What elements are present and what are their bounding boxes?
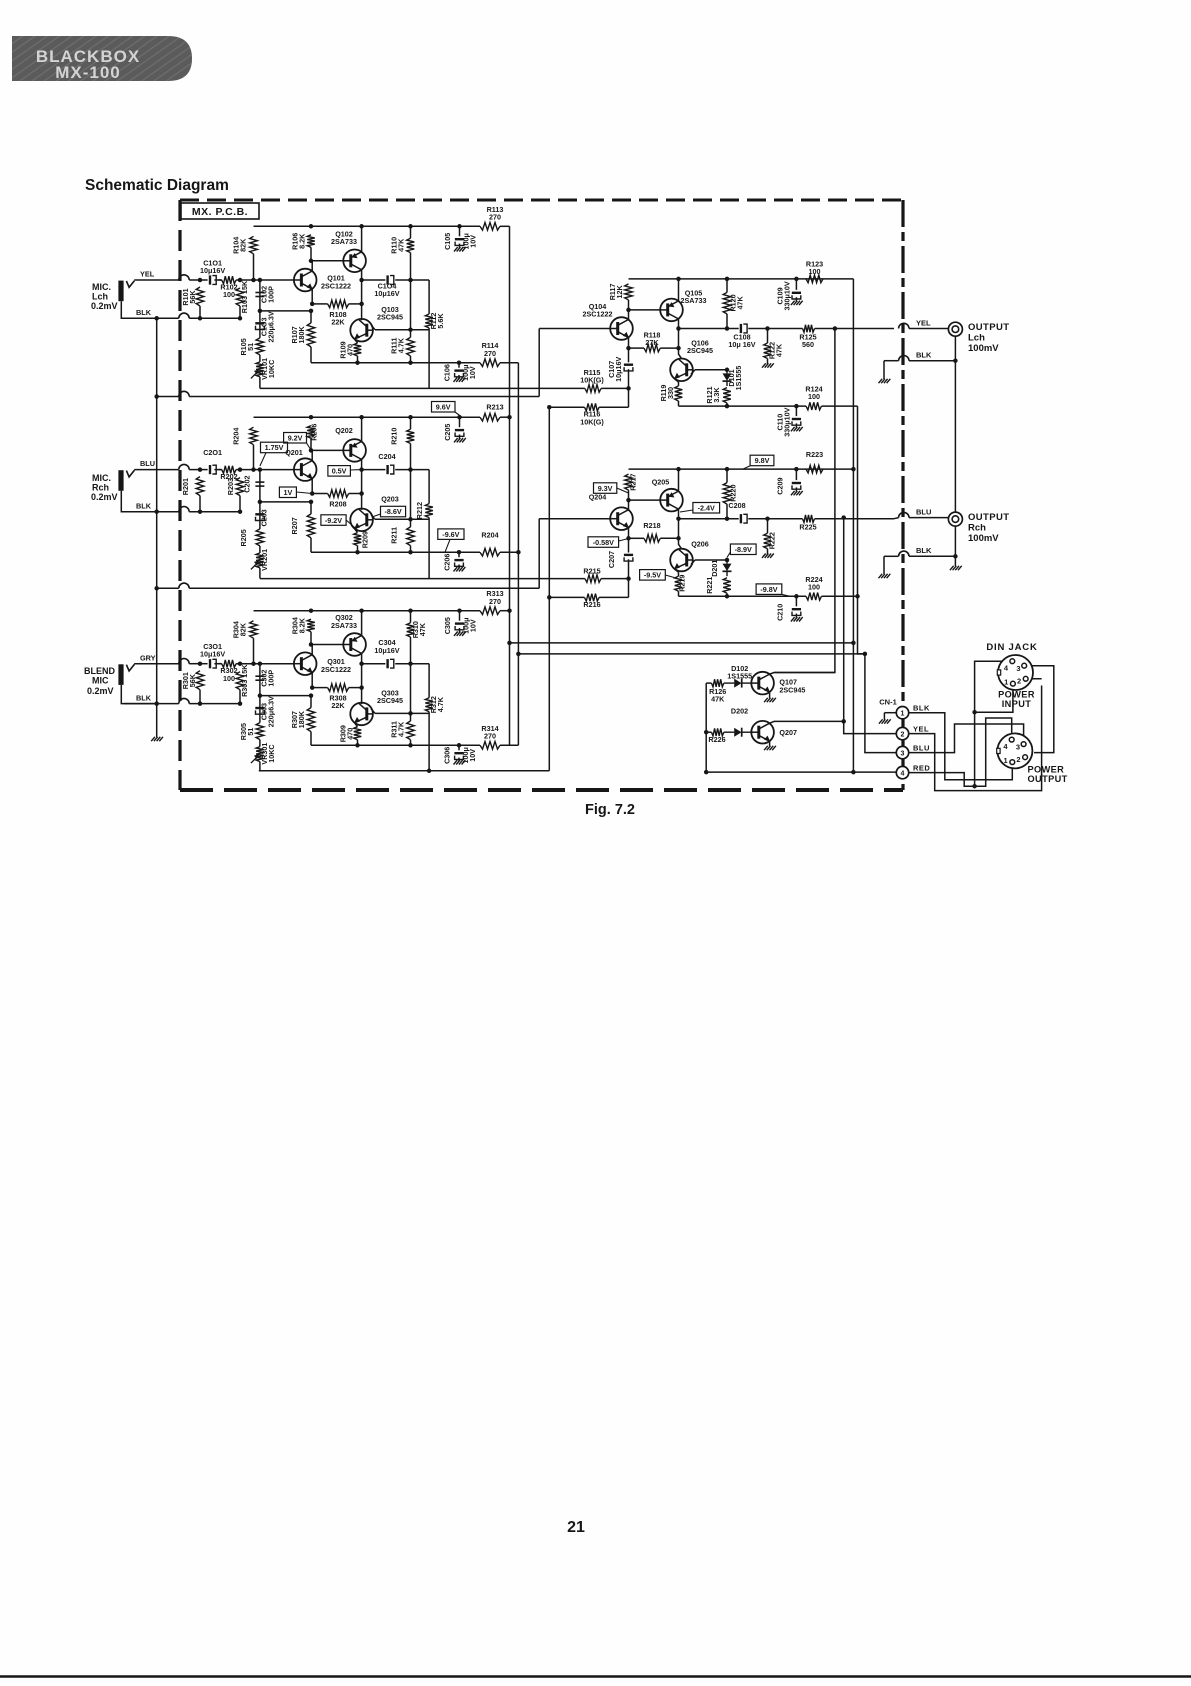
svg-text:100: 100 <box>808 582 820 591</box>
label OUTPUT Lch 100mV <box>968 322 1009 354</box>
wire bottom rail block 2 <box>311 551 480 553</box>
label BLK input blend <box>136 694 152 703</box>
svg-text:2: 2 <box>901 731 905 738</box>
label Q206 <box>691 540 709 549</box>
wire mix feed left Lch <box>260 388 585 407</box>
svg-text:10μ16V: 10μ16V <box>614 357 623 382</box>
svg-text:2: 2 <box>1016 755 1020 764</box>
label R115 <box>580 368 604 385</box>
svg-text:R103 15K: R103 15K <box>240 280 249 313</box>
label R117 <box>608 284 624 301</box>
label C201 <box>203 448 222 457</box>
label R123 <box>806 260 823 277</box>
svg-text:82K: 82K <box>238 622 247 636</box>
resistor R106 8.2K <box>307 235 315 261</box>
wire Q104 collector <box>628 310 630 320</box>
svg-text:BLK: BLK <box>136 308 152 317</box>
resistor R310 47K <box>407 611 415 714</box>
ground CN-1 <box>879 719 891 723</box>
junction dots mixer Lch <box>547 277 799 410</box>
ground BLK Lch left <box>879 379 891 383</box>
svg-text:BLU: BLU <box>913 743 930 752</box>
wire blend mix bus <box>259 407 550 771</box>
mic jack input block 3 <box>118 664 157 703</box>
PCB dashed border right <box>901 200 904 790</box>
svg-text:0.5V: 0.5V <box>332 467 347 476</box>
svg-text:R208: R208 <box>329 500 346 509</box>
wire BLK return block 3 <box>124 698 240 703</box>
svg-text:100mV: 100mV <box>968 343 999 354</box>
net -9.6V bus vertical <box>517 363 519 746</box>
svg-text:C2O1: C2O1 <box>203 448 222 457</box>
PCB dashed border bottom <box>180 788 903 792</box>
label Q106 <box>687 338 713 355</box>
svg-text:R204: R204 <box>231 428 240 445</box>
ground C306 <box>454 760 466 764</box>
label MIC. Lch 0.2mV <box>91 282 118 311</box>
svg-text:CN-1: CN-1 <box>879 698 897 707</box>
output jack Rch <box>948 512 962 526</box>
svg-text:100P: 100P <box>267 670 276 687</box>
svg-text:R204: R204 <box>481 531 498 540</box>
wire CN-1 YEL to output DIN pin2 <box>909 686 1042 791</box>
junction dots block 2 <box>154 415 461 555</box>
transistor Q107 2SC945 <box>751 672 774 695</box>
resistor R202 <box>222 466 236 474</box>
resistor R221 <box>723 578 731 597</box>
DIN jack POWER OUTPUT <box>997 733 1033 768</box>
svg-text:Q205: Q205 <box>652 478 670 487</box>
label Q204 <box>589 492 607 501</box>
label R122 <box>767 342 783 359</box>
label BLEND MIC 0.2mV <box>84 666 115 696</box>
capacitor C304 output coupling <box>362 659 430 668</box>
svg-text:BLK: BLK <box>136 694 152 703</box>
svg-text:C204: C204 <box>378 452 395 461</box>
wire BLK Rch shield <box>884 551 955 574</box>
svg-text:10V: 10V <box>468 619 477 632</box>
capacitor C207 emitter <box>624 538 633 578</box>
wire Q107 collector to mute line <box>770 673 835 675</box>
wire mixer bottom rail Lch <box>679 405 858 407</box>
wire Q102 collector down <box>361 270 363 321</box>
voltage label 9.6V <box>432 402 463 418</box>
label R106 <box>290 233 306 250</box>
ground C305 <box>454 632 466 636</box>
resistor R107 180K <box>307 311 315 363</box>
label C102 <box>260 286 276 303</box>
svg-text:0.2mV: 0.2mV <box>91 301 118 311</box>
svg-text:R210: R210 <box>390 428 399 445</box>
wire Q202 emitter to rail <box>361 417 363 441</box>
label BLU <box>916 508 931 517</box>
label Q104 <box>583 302 613 319</box>
label R104 82K <box>231 237 247 254</box>
svg-text:-9.8V: -9.8V <box>760 585 777 594</box>
wire Q205 collector down <box>679 509 682 549</box>
label C209 <box>775 478 784 495</box>
wire CN-1 BLK to output DIN pin1 <box>909 713 1013 780</box>
label R109 <box>338 341 354 358</box>
label R214 <box>481 531 498 540</box>
svg-text:Lch: Lch <box>968 333 985 344</box>
svg-text:9.2V: 9.2V <box>288 433 303 442</box>
resistor R313 supply <box>480 607 510 615</box>
wire Q206 emitter <box>675 569 679 572</box>
wire Q302 collector down <box>361 654 363 705</box>
label Q207 <box>779 728 797 737</box>
label R311 <box>389 721 405 738</box>
label BLK Lch <box>916 351 932 360</box>
svg-text:51: 51 <box>246 728 255 736</box>
svg-text:51: 51 <box>246 343 255 351</box>
wire Q101 emitter <box>311 289 313 304</box>
resistor R114 supply <box>460 359 518 367</box>
svg-text:MIC.: MIC. <box>92 282 111 292</box>
wire Q105 base line <box>629 309 661 311</box>
voltage label -9.2V <box>321 515 358 530</box>
svg-text:Rch: Rch <box>968 523 986 534</box>
svg-text:330μ10V: 330μ10V <box>782 281 791 310</box>
wire mixer top rail Lch <box>629 278 854 280</box>
svg-text:10KC: 10KC <box>267 360 276 378</box>
label R220 <box>728 485 737 502</box>
resistor R219 <box>675 572 683 596</box>
svg-text:10μ16V: 10μ16V <box>374 289 399 298</box>
svg-text:560: 560 <box>802 340 814 349</box>
svg-text:BLK: BLK <box>916 351 932 360</box>
label R113 <box>487 205 504 222</box>
svg-text:21: 21 <box>567 1519 585 1536</box>
wire Q107 emitter to ground <box>769 692 771 698</box>
capacitor C305 rail decoupling <box>455 611 464 633</box>
svg-text:10μ16V: 10μ16V <box>374 646 399 655</box>
bottom page rule <box>0 1675 1191 1677</box>
label BLK CN-1 <box>913 704 930 713</box>
label D202 <box>731 707 748 716</box>
svg-text:220μ6.3V: 220μ6.3V <box>267 311 276 342</box>
wire top rail block 3 <box>254 610 481 612</box>
svg-text:100: 100 <box>223 290 235 299</box>
resistor R220 <box>723 469 731 519</box>
PCB dashed border left <box>178 200 181 790</box>
label C106 <box>443 364 477 381</box>
potentiometer VR201 <box>251 546 264 579</box>
svg-text:3: 3 <box>901 750 905 757</box>
voltage label -8.9V <box>727 544 756 558</box>
wire border hop input <box>134 659 189 664</box>
transistor Q203 2SC945 <box>350 509 373 532</box>
svg-text:POWER: POWER <box>1028 765 1065 775</box>
capacitor C103 <box>255 311 264 338</box>
wire Lch base feed vertical <box>538 329 540 397</box>
wire Q106 emitter <box>675 379 679 382</box>
capacitor C109 <box>792 279 801 302</box>
wire input DIN pin3 loop <box>1024 666 1054 753</box>
svg-text:0.2mV: 0.2mV <box>91 492 118 502</box>
label Q205 <box>652 478 670 487</box>
svg-text:Rch: Rch <box>92 483 109 493</box>
svg-text:2SC1222: 2SC1222 <box>583 310 613 319</box>
svg-text:8.2K: 8.2K <box>297 233 306 249</box>
wire Rch output line <box>679 518 895 520</box>
label BLK Rch <box>916 546 932 555</box>
wire input ground bus vertical <box>156 318 158 737</box>
label BLU input <box>140 459 155 468</box>
svg-text:DIN JACK: DIN JACK <box>986 642 1037 653</box>
capacitor C303 <box>255 696 264 723</box>
svg-text:1V: 1V <box>284 488 293 497</box>
svg-text:R207: R207 <box>290 517 299 534</box>
svg-text:Fig. 7.2: Fig. 7.2 <box>585 802 635 818</box>
wire RED supply row <box>706 771 896 773</box>
resistor R207 180K <box>307 502 315 552</box>
svg-text:OUTPUT: OUTPUT <box>1028 774 1068 784</box>
wire Q105 collector down <box>679 319 682 359</box>
ground BLK Rch left <box>879 574 891 578</box>
svg-text:R303 15K: R303 15K <box>240 664 249 697</box>
label R120 <box>728 294 744 311</box>
wire Q207 emitter to ground <box>769 741 771 746</box>
label C302 <box>260 670 276 687</box>
label R310 <box>411 621 427 638</box>
resistor R301 <box>196 671 204 704</box>
svg-text:C203: C203 <box>260 509 269 526</box>
label R119 <box>659 385 675 402</box>
label R101 <box>181 288 197 305</box>
wire Q201 collector to Q202 base <box>311 450 343 460</box>
svg-text:470: 470 <box>345 728 354 740</box>
label C109 <box>775 281 791 310</box>
svg-text:4.7K: 4.7K <box>436 696 445 712</box>
svg-text:R206: R206 <box>310 424 319 441</box>
wire mixer top rail Rch <box>629 468 854 470</box>
transistor Q101 2SC1222 <box>294 269 317 292</box>
label R301 <box>181 672 197 689</box>
ground input bus <box>151 737 163 741</box>
label D201 <box>710 560 719 577</box>
voltage label 0.5V <box>328 466 362 477</box>
label Q201 <box>285 448 303 457</box>
svg-text:22K: 22K <box>331 701 345 710</box>
resistor R218 27K <box>629 535 679 543</box>
wire bottom rail block 1 <box>311 362 480 364</box>
svg-text:2SC945: 2SC945 <box>377 313 403 322</box>
wire input DIN pin4 drop <box>972 661 1012 788</box>
wire Q205 base line <box>629 499 661 501</box>
label C205 <box>443 424 452 441</box>
svg-text:27K: 27K <box>645 338 659 347</box>
label C208 <box>728 501 745 510</box>
wire Q205 emitter to rail <box>678 469 680 491</box>
capacitor C302 <box>255 664 264 696</box>
label R210 <box>390 428 399 445</box>
svg-text:-9.5V: -9.5V <box>644 571 661 580</box>
capacitor C301 <box>200 659 222 668</box>
svg-text:BLEND: BLEND <box>84 666 115 676</box>
wire Q204 collector <box>628 500 630 510</box>
voltage label -9.6V <box>438 529 464 552</box>
label CN-1 <box>879 698 897 707</box>
resistor R217 <box>625 474 633 500</box>
label R125 <box>799 333 816 350</box>
label R206 <box>310 424 319 441</box>
wire input DIN pin1 drop <box>972 684 1013 715</box>
resistor R126 47K <box>706 679 724 687</box>
wire CN-1 RED to output DIN pin4 <box>909 718 1012 786</box>
resistor R109 470 <box>354 343 362 363</box>
resistor R306 8.2K <box>307 619 315 644</box>
label Q102 <box>331 230 357 247</box>
capacitor C106 rail decoupling <box>454 363 463 379</box>
svg-text:10K(G): 10K(G) <box>580 417 604 426</box>
capacitor C306 rail decoupling <box>454 745 463 761</box>
label BLU CN-1 <box>913 743 930 752</box>
label R219 <box>678 575 687 592</box>
label R304 82K <box>231 621 247 638</box>
label R306 <box>290 617 306 634</box>
diode D102 1S1555 <box>724 679 751 688</box>
label C107 <box>607 357 623 382</box>
wire CN-1 pin1 ground stub <box>884 713 896 720</box>
label R124 <box>805 385 822 402</box>
resistor R105 <box>256 338 264 355</box>
ground C206 <box>454 567 466 571</box>
ground Q107 <box>764 698 776 702</box>
transistor Q105 (PNP) <box>660 299 683 322</box>
svg-text:2SA733: 2SA733 <box>681 296 707 305</box>
svg-text:R220: R220 <box>728 485 737 502</box>
svg-text:4.7K: 4.7K <box>396 337 405 353</box>
page number 21 <box>567 1519 585 1536</box>
label C108 <box>728 333 755 350</box>
label Q103 <box>377 305 403 322</box>
resistor R108 22K <box>312 300 361 308</box>
connector CN-1 pin 2 <box>896 727 908 739</box>
svg-text:9.6V: 9.6V <box>436 402 451 411</box>
resistor R224 <box>806 593 822 601</box>
svg-text:10V: 10V <box>468 366 477 379</box>
label R309 <box>338 725 354 742</box>
label R313 <box>486 589 503 606</box>
junction blend bus <box>154 394 431 773</box>
svg-text:9.3V: 9.3V <box>598 484 613 493</box>
label R314 <box>481 724 498 741</box>
svg-text:100P: 100P <box>267 286 276 303</box>
svg-text:270: 270 <box>484 731 496 740</box>
label C203 <box>260 509 269 526</box>
transistor Q103 2SC945 <box>350 319 373 342</box>
wire -9.6V feed line <box>516 652 865 657</box>
capacitor C104 output coupling <box>362 275 430 284</box>
capacitor C110 <box>792 406 801 428</box>
svg-text:47K: 47K <box>397 238 406 252</box>
svg-text:1: 1 <box>1004 756 1008 765</box>
wire Q206 collector line <box>691 560 727 565</box>
label BLK input Rch <box>136 502 152 511</box>
wire Q303 emitter <box>355 723 358 727</box>
transistor Q104 (input) <box>610 317 633 340</box>
label R116 <box>580 410 604 427</box>
diode D201 <box>723 560 732 576</box>
svg-text:-9.6V: -9.6V <box>442 530 459 539</box>
svg-text:3: 3 <box>1016 664 1020 673</box>
svg-text:8.2K: 8.2K <box>297 617 306 633</box>
capacitor C201 <box>200 465 222 474</box>
resistor R211 4.7K <box>407 519 415 552</box>
transistor Q301 2SC1222 <box>294 652 317 675</box>
resistor R212 <box>425 470 433 579</box>
svg-text:180K: 180K <box>297 326 306 344</box>
resistor R311 4.7K <box>407 713 415 745</box>
label R224 <box>805 575 822 592</box>
svg-text:-2.4V: -2.4V <box>698 503 715 512</box>
svg-text:5.6K: 5.6K <box>436 313 445 329</box>
svg-text:22K: 22K <box>331 318 345 327</box>
ground Q207 <box>764 746 776 750</box>
svg-text:1S1555: 1S1555 <box>734 366 743 391</box>
label R215 <box>583 567 600 576</box>
wire Lch ground reference line <box>157 391 540 396</box>
svg-text:Q207: Q207 <box>779 728 797 737</box>
svg-text:D202: D202 <box>731 707 748 716</box>
svg-text:270: 270 <box>489 597 501 606</box>
voltage label -2.4V <box>680 503 720 514</box>
resistor R215 mix <box>585 575 629 583</box>
ground C209 <box>791 491 803 495</box>
svg-text:Lch: Lch <box>92 292 108 302</box>
transistor Q201 2SC1222 <box>294 458 317 481</box>
capacitor C101 <box>200 275 222 284</box>
wire signal input line block 3 <box>189 663 294 665</box>
wire Q301 emitter <box>311 673 313 688</box>
svg-text:10μ16V: 10μ16V <box>200 650 225 659</box>
svg-text:Q202: Q202 <box>335 426 353 435</box>
svg-text:BLK: BLK <box>916 546 932 555</box>
resistor R116 mix <box>585 388 629 411</box>
svg-text:2SC945: 2SC945 <box>377 696 403 705</box>
svg-text:1.75V: 1.75V <box>265 443 284 452</box>
label R203 <box>226 478 235 495</box>
label MIC. Rch 0.2mV <box>91 473 118 502</box>
wire mixer bottom rail Rch <box>679 595 858 597</box>
svg-text:2SC945: 2SC945 <box>779 685 805 694</box>
svg-text:0.2mV: 0.2mV <box>87 686 114 696</box>
svg-text:R218: R218 <box>643 521 660 530</box>
svg-text:R221: R221 <box>705 577 714 594</box>
wire Q303 collector line <box>371 709 429 714</box>
label R302 <box>220 666 237 683</box>
label C104 <box>374 282 399 299</box>
connector CN-1 pin 3 <box>896 746 908 758</box>
svg-text:R213: R213 <box>486 403 503 412</box>
wire bottom rail block 3 <box>311 744 480 746</box>
svg-text:YEL: YEL <box>913 724 929 733</box>
svg-text:1S1555: 1S1555 <box>727 671 752 680</box>
svg-text:GRY: GRY <box>140 654 156 663</box>
svg-text:270: 270 <box>484 349 496 358</box>
transistor Q207 <box>751 721 774 744</box>
label VR301 <box>260 743 276 765</box>
label R211 <box>389 527 398 544</box>
label C110 <box>775 407 791 436</box>
wire Q302 emitter to rail <box>361 611 363 636</box>
transistor Q303 2SC945 <box>350 703 373 726</box>
resistor R222 <box>764 519 772 555</box>
wire BLK return block 2 <box>124 506 240 511</box>
resistor R208 22K <box>312 490 361 498</box>
resistor R213 supply <box>480 413 510 421</box>
